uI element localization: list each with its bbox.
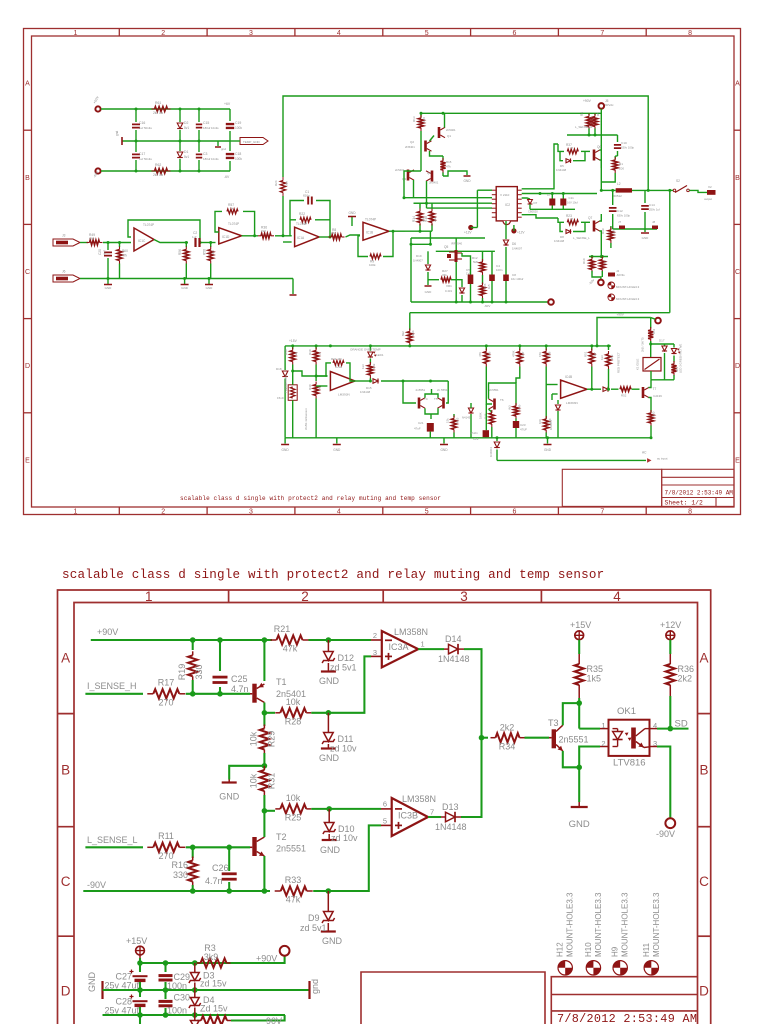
OK1 light arrows bbox=[625, 733, 629, 736]
svg-text:25v 47uf: 25v 47uf bbox=[104, 1006, 139, 1016]
svg-text:IC1C: IC1C bbox=[138, 239, 146, 243]
svg-text:R51: R51 bbox=[584, 351, 588, 357]
svg-text:GND: GND bbox=[544, 448, 552, 452]
svg-text:C19: C19 bbox=[235, 121, 241, 125]
wire IC1A feedback inner with R22 bbox=[290, 219, 296, 221]
svg-text:GND: GND bbox=[320, 845, 341, 855]
wire R28 to IC3A pin3 bbox=[311, 656, 371, 712]
svg-text:C: C bbox=[735, 269, 740, 276]
wire -60V rail bbox=[101, 170, 230, 172]
svg-text:LED 3 GREEN ACTIVE: LED 3 GREEN ACTIVE bbox=[679, 344, 683, 373]
svg-text:3: 3 bbox=[460, 589, 468, 604]
svg-text:3k9: 3k9 bbox=[204, 952, 219, 962]
svg-text:R25: R25 bbox=[456, 417, 460, 423]
svg-text:2n5551: 2n5551 bbox=[276, 844, 306, 854]
resistor R12 5k6 bbox=[482, 251, 484, 261]
svg-text:90Vdc: 90Vdc bbox=[605, 103, 614, 107]
svg-text:D2: D2 bbox=[184, 121, 188, 125]
gnd bar left bbox=[121, 137, 123, 145]
svg-text:R35: R35 bbox=[587, 664, 604, 674]
wire R14 R18 bottoms bbox=[411, 243, 430, 245]
net L_SENSE_H bbox=[567, 134, 601, 136]
diode D19 1N4007 bbox=[427, 251, 429, 264]
svg-text:SD: SD bbox=[675, 719, 688, 730]
svg-text:K1 G5LE: K1 G5LE bbox=[636, 359, 640, 370]
wire driver VS to output bbox=[522, 193, 597, 195]
op-amp IC1A TL074P bbox=[295, 227, 320, 247]
svg-text:ac input: ac input bbox=[657, 457, 668, 461]
svg-text:+12V: +12V bbox=[464, 231, 472, 235]
wires q cluster to driver bbox=[413, 180, 415, 198]
svg-text:820p: 820p bbox=[303, 194, 310, 198]
svg-text:10K: 10K bbox=[538, 419, 542, 424]
svg-text:D13: D13 bbox=[442, 802, 459, 812]
svg-text:R21: R21 bbox=[274, 624, 291, 634]
terminal +60V bbox=[95, 106, 100, 111]
svg-text:C18: C18 bbox=[235, 152, 241, 156]
transistor Q3 2n5401 bbox=[407, 170, 410, 181]
resistor R30 2k bbox=[315, 346, 317, 349]
svg-text:RED PROTECT: RED PROTECT bbox=[617, 352, 621, 373]
resistor R40 9k1 bbox=[315, 376, 317, 381]
svg-text:100n: 100n bbox=[167, 981, 187, 991]
svg-text:zd 5v1: zd 5v1 bbox=[330, 663, 357, 673]
svg-text:1uf 50vlts: 1uf 50vlts bbox=[139, 126, 152, 130]
component J7 bbox=[619, 226, 625, 230]
capacitor C10 630v 100p bbox=[617, 135, 619, 142]
wire big feedback loop lower bbox=[282, 196, 284, 236]
svg-text:3: 3 bbox=[373, 648, 377, 657]
svg-text:1N4148: 1N4148 bbox=[554, 239, 565, 243]
wire driver left pins bbox=[477, 189, 492, 191]
capacitor C29 100n bbox=[164, 963, 166, 972]
resistor R50 bbox=[650, 410, 652, 413]
svg-text:H12: H12 bbox=[556, 942, 565, 957]
svg-text:GND: GND bbox=[282, 448, 290, 452]
svg-text:IC1B: IC1B bbox=[366, 231, 373, 235]
svg-text:R19: R19 bbox=[177, 664, 187, 681]
svg-text:GND: GND bbox=[322, 936, 343, 946]
svg-text:N4143: N4143 bbox=[462, 416, 471, 420]
wire led bus top bbox=[651, 343, 674, 345]
svg-text:0.431: 0.431 bbox=[445, 289, 452, 293]
svg-text:5: 5 bbox=[383, 817, 387, 826]
resistor R58 33k bbox=[210, 243, 212, 248]
svg-text:zd 15v: zd 15v bbox=[200, 979, 227, 989]
wire IC1B output to R14 R18 bbox=[405, 230, 432, 232]
sheet 2 frame labels bbox=[61, 589, 709, 999]
svg-text:7: 7 bbox=[600, 30, 604, 37]
resistor R49 680 bbox=[87, 242, 90, 244]
svg-text:6: 6 bbox=[513, 30, 517, 37]
wire R36 to pin4 junction bbox=[669, 696, 671, 729]
resistor R34 2k2 bbox=[482, 737, 489, 739]
capacitor C19 100k bbox=[229, 109, 231, 121]
resistor R26 1k5 bbox=[482, 283, 484, 286]
svg-text:E: E bbox=[735, 457, 740, 464]
wire D14 to junction bbox=[464, 649, 482, 738]
capacitor C1 820p bbox=[308, 197, 312, 205]
svg-text:TL074P: TL074P bbox=[143, 223, 154, 227]
resistor R8 262 bbox=[329, 236, 332, 238]
svg-text:15k: 15k bbox=[446, 418, 450, 423]
svg-text:R50: R50 bbox=[652, 411, 656, 417]
svg-text:C: C bbox=[25, 269, 30, 276]
svg-text:R18: R18 bbox=[424, 216, 428, 222]
svg-text:LM393N: LM393N bbox=[338, 393, 350, 397]
svg-text:R5: R5 bbox=[596, 112, 600, 116]
wire +90V to relay column bbox=[597, 318, 651, 346]
wire T6 collector bbox=[489, 383, 517, 405]
svg-text:R28: R28 bbox=[285, 717, 302, 727]
svg-text:C25: C25 bbox=[231, 674, 248, 684]
inductor L2 bbox=[616, 188, 632, 192]
svg-text:7k: 7k bbox=[230, 206, 234, 210]
svg-text:4: 4 bbox=[337, 509, 341, 516]
wire R17 to T1 base bbox=[186, 693, 250, 695]
gnd symbol mid bbox=[217, 141, 219, 146]
diode D7 bbox=[522, 198, 530, 199]
op-amp IC4A LM393N bbox=[330, 372, 355, 391]
svg-text:47k: 47k bbox=[283, 644, 298, 654]
resistor R36 2k2 bbox=[666, 664, 675, 685]
svg-text:C: C bbox=[699, 874, 709, 889]
svg-text:zd 10v: zd 10v bbox=[331, 833, 358, 843]
svg-text:AC: AC bbox=[642, 451, 647, 455]
svg-text:L_SENSE_L: L_SENSE_L bbox=[87, 835, 138, 845]
svg-text:1k5: 1k5 bbox=[587, 674, 602, 684]
svg-text:+90V: +90V bbox=[256, 954, 277, 964]
svg-text:1N4004: 1N4004 bbox=[549, 420, 553, 430]
junction +90V T1 emitter bbox=[262, 637, 268, 643]
svg-text:GND: GND bbox=[206, 286, 214, 290]
svg-text:1: 1 bbox=[601, 721, 605, 730]
wire bias rail to sense divider bbox=[421, 112, 601, 114]
resistor R10 bbox=[591, 257, 593, 259]
svg-text:C16: C16 bbox=[139, 121, 145, 125]
svg-text:TEMP_GND: TEMP_GND bbox=[243, 140, 261, 144]
sheet 1 frame labels bbox=[25, 30, 740, 516]
svg-text:THERMISTOR: THERMISTOR bbox=[284, 375, 288, 393]
svg-text:100n: 100n bbox=[167, 1006, 187, 1016]
svg-text:1: 1 bbox=[73, 509, 77, 516]
wire T7 emitter down bbox=[649, 398, 652, 413]
svg-text:D14: D14 bbox=[445, 634, 462, 644]
transistor T1 2n5401 bbox=[250, 693, 252, 695]
wire R34 to T3 base bbox=[525, 737, 550, 739]
transistor T2 2n5551 bbox=[250, 846, 252, 848]
mount hole sheet1 a bbox=[608, 282, 615, 289]
svg-text:R49: R49 bbox=[518, 404, 522, 410]
wire relay to T7 bbox=[650, 371, 652, 380]
svg-text:R11: R11 bbox=[158, 831, 174, 841]
wire Q6 connections bbox=[600, 149, 602, 151]
resistor R4 bbox=[588, 113, 590, 115]
svg-text:GND: GND bbox=[87, 972, 97, 993]
svg-text:2N2 / 3N T5: 2N2 / 3N T5 bbox=[641, 337, 645, 352]
resistor R25 10k bbox=[264, 810, 275, 812]
resistor R52 1k3 bbox=[608, 346, 610, 350]
wire driver bottom bus bbox=[530, 208, 575, 210]
svg-text:Q1: Q1 bbox=[447, 134, 451, 138]
svg-text:100: 100 bbox=[619, 167, 624, 171]
junction +90V R19 bbox=[190, 637, 196, 643]
svg-text:bd139: bd139 bbox=[654, 394, 663, 398]
svg-text:+90V: +90V bbox=[583, 99, 592, 103]
svg-text:D6: D6 bbox=[512, 242, 516, 246]
gnd protect mid bbox=[336, 438, 338, 444]
svg-text:1N4148: 1N4148 bbox=[556, 168, 567, 172]
svg-text:47UF: 47UF bbox=[520, 428, 527, 432]
capacitor C21 47uF bbox=[427, 423, 434, 432]
transistor Q6 bbox=[593, 150, 596, 161]
svg-text:W-8R-122sensor: W-8R-122sensor bbox=[304, 408, 308, 430]
svg-text:2: 2 bbox=[301, 589, 309, 604]
svg-text:1N4007: 1N4007 bbox=[512, 247, 523, 251]
svg-text:1: 1 bbox=[145, 589, 153, 604]
gnd stub input 1 bbox=[107, 279, 109, 285]
wire loop from output to protect bbox=[410, 312, 670, 314]
wire IC4A lower input bbox=[316, 385, 327, 387]
mount hole H11 bbox=[644, 961, 658, 975]
svg-text:H10: H10 bbox=[584, 942, 593, 957]
wire C2 to IC1D bbox=[201, 242, 216, 244]
wire R47 down bbox=[516, 372, 520, 383]
terminal +90V relay bbox=[655, 318, 661, 324]
wire IC1A output bbox=[319, 236, 328, 238]
connector J4 -60Volts bbox=[601, 274, 603, 277]
wire +90V to T1 emitter bbox=[263, 640, 265, 681]
svg-text:GND: GND bbox=[319, 676, 340, 686]
svg-text:GND: GND bbox=[642, 236, 650, 240]
wire R36 to IC1A bbox=[275, 235, 292, 237]
svg-text:2k2 1w: 2k2 1w bbox=[153, 111, 164, 115]
transistor T5 2n5551 bbox=[442, 398, 445, 409]
svg-text:R61: R61 bbox=[155, 101, 161, 105]
wire R35 to junction bbox=[578, 698, 580, 729]
wire IC1A lower input bbox=[283, 241, 292, 243]
wire IC1C feedback loop bbox=[128, 220, 200, 243]
zener diode D10 bbox=[328, 809, 330, 823]
capacitor C28 25v 47uf bbox=[139, 990, 141, 997]
wire T1 collector down bbox=[263, 703, 265, 713]
op-amp IC3B LM358N bbox=[392, 798, 428, 836]
ac input arrow bbox=[647, 458, 651, 463]
svg-text:LED1: LED1 bbox=[376, 353, 384, 357]
svg-text:R31: R31 bbox=[267, 773, 277, 790]
capacitor C18 100k bbox=[229, 141, 231, 151]
svg-text:5v1: 5v1 bbox=[184, 155, 189, 159]
svg-text:GND: GND bbox=[333, 448, 341, 452]
wire Q7 connections bbox=[600, 214, 602, 221]
svg-text:3: 3 bbox=[249, 30, 253, 37]
svg-text:1N4148: 1N4148 bbox=[438, 654, 470, 664]
resistor R36s 2k2 bbox=[258, 235, 261, 237]
svg-text:R29: R29 bbox=[267, 731, 277, 748]
svg-text:IC1D: IC1D bbox=[222, 235, 230, 239]
svg-text:VR1: VR1 bbox=[446, 284, 452, 288]
capacitor C16 1uf 50volts bbox=[135, 109, 137, 122]
diode D13 1N4148 bbox=[441, 816, 446, 818]
capacitor C7 polarized bbox=[551, 194, 553, 199]
svg-text:1: 1 bbox=[73, 30, 77, 37]
svg-text:J3: J3 bbox=[62, 234, 66, 238]
svg-text:Zd 15v: Zd 15v bbox=[200, 1004, 228, 1014]
svg-text:R53: R53 bbox=[652, 328, 656, 334]
mount hole sheet1 b bbox=[608, 294, 615, 301]
svg-text:R62: R62 bbox=[155, 163, 161, 167]
svg-text:+15V: +15V bbox=[289, 339, 298, 343]
wire IC1A feedback outer with C1 bbox=[290, 201, 304, 236]
resistor R49p 4k3 bbox=[515, 403, 517, 406]
svg-text:R47: R47 bbox=[521, 351, 525, 357]
resistor R33 47k bbox=[275, 890, 281, 892]
wire IC3A output bbox=[418, 648, 444, 650]
svg-text:C17: C17 bbox=[139, 152, 145, 156]
svg-text:TL074P: TL074P bbox=[365, 218, 376, 222]
svg-text:100k: 100k bbox=[235, 157, 242, 161]
wire q cluster verticals bbox=[420, 146, 422, 171]
svg-text:+6V: +6V bbox=[224, 102, 231, 106]
capacitor C25 bbox=[219, 640, 221, 671]
svg-text:16V 10uf: 16V 10uf bbox=[567, 201, 578, 205]
wire T2 collector up bbox=[263, 811, 265, 837]
transistor Q4 2n5401 bbox=[431, 171, 434, 182]
svg-text:ORANGE OVERTEMP: ORANGE OVERTEMP bbox=[350, 348, 381, 352]
diode D23 output bbox=[603, 387, 608, 392]
resistor R53 1k2 bbox=[650, 318, 652, 329]
diode D22 N4148 bbox=[468, 408, 473, 413]
svg-text:-60V: -60V bbox=[484, 304, 490, 308]
svg-text:R22: R22 bbox=[299, 212, 305, 216]
transistor Q2 2N5401 bbox=[424, 141, 427, 152]
svg-text:+12V: +12V bbox=[660, 620, 681, 630]
wire gate row bbox=[436, 250, 495, 252]
svg-text:MOUNT-HOLE3.3: MOUNT-HOLE3.3 bbox=[616, 297, 640, 301]
svg-text:R10: R10 bbox=[582, 258, 586, 264]
svg-text:10k: 10k bbox=[302, 222, 307, 226]
zener D2 5v1 bbox=[179, 109, 181, 122]
svg-text:D: D bbox=[735, 363, 740, 370]
wire T3 collector bbox=[563, 703, 579, 725]
capacitor C22 47uF bbox=[485, 404, 487, 430]
svg-text:A: A bbox=[699, 651, 708, 666]
capacitor C11 6v 10uf bbox=[562, 194, 564, 199]
resistor R41 1M bbox=[333, 361, 344, 366]
svg-text:16v 100uf: 16v 100uf bbox=[511, 277, 524, 281]
resistor R25p 15k bbox=[453, 414, 455, 417]
svg-text:C3: C3 bbox=[203, 152, 207, 156]
svg-text:56k: 56k bbox=[285, 181, 289, 186]
svg-text:R52: R52 bbox=[621, 394, 627, 398]
wire +15V protect rail bbox=[285, 345, 611, 347]
svg-text:-90V: -90V bbox=[588, 278, 596, 286]
op-amp IC3A LM358N bbox=[371, 655, 382, 657]
svg-text:R14: R14 bbox=[412, 216, 416, 222]
svg-text:630v 100p: 630v 100p bbox=[617, 214, 631, 218]
svg-text:2k2: 2k2 bbox=[500, 723, 515, 733]
svg-text:C12: C12 bbox=[617, 209, 623, 213]
diode D6 1N4007 bbox=[505, 221, 507, 239]
wire T4 T5 collectors up bbox=[425, 394, 438, 398]
svg-text:C7: C7 bbox=[547, 193, 551, 197]
wire to T4 base bbox=[403, 381, 416, 403]
flag TEMP_GND bbox=[240, 138, 268, 145]
svg-text:R17: R17 bbox=[158, 678, 175, 688]
capacitor C3 180uf 10volts bbox=[198, 141, 200, 152]
svg-text:C22: C22 bbox=[473, 437, 479, 441]
wire T2 emitter down bbox=[263, 856, 265, 891]
zener diode D3 zd 15v bbox=[194, 963, 196, 973]
svg-text:R7: R7 bbox=[604, 260, 608, 264]
wire junction down to OK1 pin1 bbox=[579, 728, 600, 730]
transistor T4 2n5551 bbox=[418, 398, 421, 409]
wire thermistor junction to IC4A bbox=[293, 371, 328, 376]
svg-text:R39: R39 bbox=[601, 228, 605, 234]
OK1 internal phototransistor bbox=[631, 728, 636, 749]
switch S2 bbox=[670, 189, 674, 191]
gnd protect left bbox=[284, 438, 286, 444]
op-amp IC1C TL074P bbox=[134, 228, 154, 251]
resistor R9 100k bbox=[370, 254, 381, 259]
svg-text:T6: T6 bbox=[500, 398, 504, 402]
svg-text:10k: 10k bbox=[249, 773, 259, 788]
wire +15V rail bottom bbox=[139, 958, 141, 963]
svg-text:4k7: 4k7 bbox=[593, 352, 597, 357]
svg-text:T2: T2 bbox=[276, 832, 287, 842]
svg-text:L2: L2 bbox=[617, 182, 621, 186]
gnd output caps bbox=[644, 229, 646, 232]
svg-text:D12: D12 bbox=[338, 653, 355, 663]
resistor R56 1k bbox=[185, 243, 187, 248]
zener diode D11 bbox=[327, 713, 329, 733]
resistor R28 10k bbox=[264, 712, 275, 714]
svg-text:IC1A: IC1A bbox=[297, 236, 305, 240]
wire D13 to junction bbox=[461, 738, 482, 817]
connector X2 bbox=[707, 190, 716, 195]
wire protect mid rail bbox=[285, 437, 560, 439]
diode D15 1N4148 bbox=[373, 379, 378, 384]
svg-text:47K: 47K bbox=[478, 352, 482, 357]
svg-text:8: 8 bbox=[688, 509, 692, 516]
gnd above IC1B bbox=[351, 217, 353, 226]
resistor R19 bbox=[192, 640, 194, 650]
capacitor C15 180uf 10volts bbox=[198, 109, 200, 122]
wire output right vertical bbox=[669, 190, 671, 312]
resistor R18 2k2 vertical bbox=[431, 224, 433, 231]
svg-text:2n5551: 2n5551 bbox=[416, 388, 426, 392]
svg-text:TL074P: TL074P bbox=[228, 222, 239, 226]
svg-text:2k2: 2k2 bbox=[433, 217, 437, 222]
transistor Q1 2n5401 bbox=[438, 127, 441, 138]
wire Q5 source bottom bbox=[455, 262, 457, 302]
svg-text:Q7: Q7 bbox=[588, 216, 592, 220]
resistor R60 47k bbox=[119, 243, 121, 248]
svg-text:47uFv: 47uFv bbox=[470, 431, 478, 435]
wire input bottom rail bbox=[80, 278, 293, 280]
svg-text:C14: C14 bbox=[649, 203, 655, 207]
svg-text:1N4148: 1N4148 bbox=[435, 822, 467, 832]
svg-text:J6: J6 bbox=[62, 270, 66, 274]
resistor R47 470K bbox=[519, 346, 521, 350]
wire comparator output to transistor bases bbox=[402, 380, 405, 383]
wire sense resistors bbox=[589, 256, 608, 258]
wire ac net bbox=[497, 459, 646, 461]
mount hole H9 bbox=[613, 961, 627, 975]
svg-text:IC3A: IC3A bbox=[389, 642, 409, 652]
svg-text:R1: R1 bbox=[619, 162, 623, 166]
svg-text:R16: R16 bbox=[171, 860, 188, 870]
